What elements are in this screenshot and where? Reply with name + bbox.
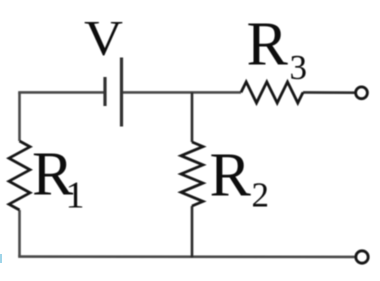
svg-text:1: 1 [66,175,85,217]
wire: left vertical bottom segment [18,210,21,257]
wire: top rail right (R3 to top terminal) [303,91,356,94]
resistor R1 zigzag [9,141,30,210]
svg-text:V: V [84,11,123,66]
resistor R3 zigzag [241,82,303,103]
svg-text:R: R [247,10,289,78]
battery V: right long plate [120,58,123,127]
svg-text:R: R [210,142,252,210]
bottom terminal circle [356,251,368,263]
battery V: left short plate [103,77,106,106]
wire: top rail left (corner to battery left plate) [18,91,105,94]
blue edge artifact [0,254,2,263]
resistor R2 zigzag [181,142,203,206]
label V [84,11,123,66]
wire: middle vertical bottom segment (R2 to bottom rail) [191,206,194,258]
svg-text:3: 3 [290,48,308,87]
top terminal circle [356,87,368,99]
wire: middle vertical top segment (junction to R2) [191,92,194,142]
svg-text:2: 2 [252,176,270,215]
wire: top rail middle (battery right plate to R3) [122,91,242,94]
wire: left vertical top segment [18,92,21,141]
wire: bottom rail [18,255,356,258]
